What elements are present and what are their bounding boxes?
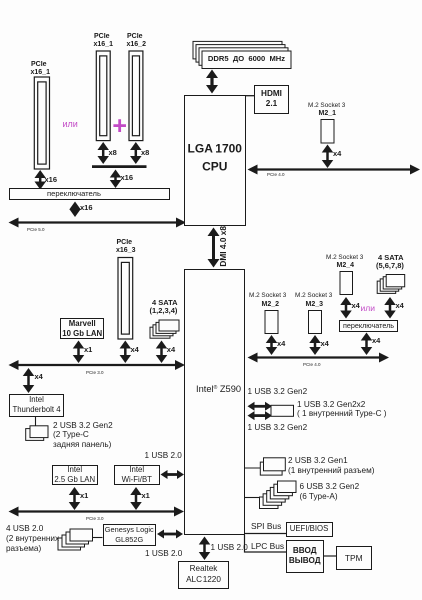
PCIe slot x16_1 (middle): [96, 51, 110, 141]
PCIe 4.0 bus (right): [248, 353, 390, 363]
label DMI 4.0 x8 (rotated): [219, 226, 260, 268]
Intel 2.5Gb LAN box: [52, 465, 98, 486]
label PCIe 5.0: [27, 227, 45, 233]
SPI bus wire: [245, 533, 286, 535]
label x4 (Thunderbolt): [35, 373, 43, 382]
label 2 USB 3.2 Gen2 TypeC rear panel: [53, 421, 113, 430]
label LPC Bus: [251, 542, 284, 551]
arrow x16 switch to PCIe5.0 bus: [69, 202, 81, 218]
wire IO to TPM: [324, 555, 336, 557]
arrow x16 bar to switch: [110, 170, 122, 189]
label M.2 Socket 3 (M2_3): [295, 292, 332, 299]
PCIe 5.0 bus arrow: [9, 218, 187, 228]
Intel WiFi/BT box: [114, 465, 160, 486]
arrow x4 M2_3 to PCIe4 bus: [309, 335, 321, 355]
label PCIe x16_2: [127, 33, 143, 41]
arrow x1 LAN to PCIe3 bus: [69, 487, 81, 510]
label PCIe 4.0 (right): [303, 362, 321, 368]
arrow x16 left-slot to switch: [34, 170, 46, 190]
arrow x1 WiFi to PCIe3 bus: [130, 487, 142, 510]
TPM box: [336, 546, 372, 570]
USB Gen2x2 port rect: [271, 405, 294, 416]
CPU box LGA1700: [184, 95, 246, 226]
wire Thunderbolt to TypeC stack: [35, 417, 37, 428]
label x4 (SATA 5-8): [396, 302, 404, 311]
label x4 (M2_2): [277, 340, 285, 349]
label 6 USB 3.2 Gen2: [300, 482, 360, 491]
label 2 USB 3.2 Gen1: [288, 456, 348, 465]
2 USB Gen1 stack: [260, 458, 285, 475]
arrow x4 M2_1 to PCIe4 bus: [322, 145, 334, 169]
PCIe 4.0 bus (top right): [248, 165, 421, 175]
Intel Thunderbolt 4 box: [9, 394, 64, 418]
label 4 USB 2.0 (2 internal): [6, 524, 43, 533]
UEFI/BIOS box: [286, 522, 333, 537]
label PCIe x16_1 (middle slot): [94, 33, 110, 41]
Marvell 10Gb LAN box: [60, 318, 104, 338]
DDR5 memory stack: [193, 41, 291, 68]
label x16 (left slot arrow): [45, 176, 58, 185]
label 6 TypeA: [300, 492, 338, 501]
switch box (top) pereklyuchatel: [9, 188, 170, 200]
M.2 slot M2_1: [321, 120, 334, 144]
label PCIe x16_3: [117, 239, 133, 247]
VVOD/VYVOD (IO) box: [286, 540, 325, 573]
label M2_4: [337, 262, 355, 270]
label SPI Bus: [251, 522, 281, 531]
SATA stack 5-8: [377, 275, 405, 294]
label 1 USB 3.2 Gen2 (lower): [248, 423, 308, 432]
arrow x4 x16_3 to PCIe3 bus: [120, 341, 132, 364]
label PCIe x16_1 (left slot): [31, 61, 47, 69]
M.2 slot M2_4: [340, 272, 353, 295]
chipset box Intel Z590: [184, 269, 245, 536]
label 4 SATA (5,6,7,8): [378, 254, 404, 263]
switch box (right): [339, 320, 398, 332]
arrow x4 SATA5678 to switch: [384, 297, 396, 319]
label PCIe 3.0 (middle): [86, 370, 104, 376]
label x1 (LAN): [80, 492, 88, 501]
label x16 (bar arrow): [121, 174, 134, 183]
bus bar joining x8 arrows: [92, 165, 147, 168]
Realtek ALC1220 box: [178, 561, 229, 589]
4 USB2 stack: [58, 529, 93, 550]
arrow x1 Marvell to PCIe3 bus: [73, 341, 85, 364]
label PCIe 3.0 (bottom): [86, 516, 104, 522]
label pereklyuchatel (top switch): [47, 190, 101, 199]
label x1 (WiFi): [142, 492, 150, 501]
LPC bus wire: [245, 535, 287, 552]
PCIe slot x16_3: [118, 258, 133, 340]
USB gen2x2 arrow row1: [248, 402, 273, 411]
arrow x4 PCIe3 bus to Thunderbolt: [23, 368, 35, 393]
label x8 (first): [109, 149, 117, 158]
USB2.0 arrow wifi to chipset: [161, 470, 185, 479]
label x1 (Marvell): [84, 346, 92, 355]
label x4 (right switch): [372, 337, 380, 346]
label 1 USB 3.2 Gen2 (upper): [248, 387, 308, 396]
label M.2 Socket 3 (M2_4): [326, 254, 363, 261]
arrow x4 right-switch to PCIe4 bus: [361, 333, 373, 356]
label M2_1: [319, 110, 337, 118]
M.2 slot M2_3: [309, 311, 322, 334]
arrow x8 from slot x16_2: [130, 142, 142, 164]
label 1 USB 2.0 (Genesys): [145, 549, 182, 558]
magenta label ili (or) right: [361, 304, 375, 314]
magenta label ili (or) left: [63, 119, 78, 129]
M.2 slot M2_2: [265, 311, 278, 334]
label 1 USB 3.2 Gen2x2: [297, 400, 365, 409]
label 4 SATA (1,2,3,4): [152, 299, 178, 308]
label 1 USB 2.0 (Realtek): [211, 543, 248, 552]
label M2_2: [262, 301, 280, 309]
PCIe slot x16_2: [129, 51, 143, 141]
wire chipset to 2xUSB Gen1 stack: [245, 467, 262, 469]
SATA stack 1-4: [150, 320, 179, 338]
PCIe 3.0 bus (middle): [9, 360, 186, 370]
label x8 (second): [141, 149, 149, 158]
USB gen2x2 arrow row2: [248, 411, 273, 420]
HDMI 2.1 box: [254, 85, 289, 115]
label M2_3: [306, 301, 324, 309]
label M.2 Socket 3 (M2_1): [308, 102, 345, 109]
label x4 (M2_4): [352, 302, 360, 311]
arrow x4 SATA1234 to PCIe3 bus: [156, 341, 168, 364]
label x4 (M2_1): [333, 150, 341, 159]
label x4 (x16_3): [131, 346, 139, 355]
arrow DDR5 to CPU: [206, 70, 218, 94]
wire chipset to 6xUSB stack: [245, 497, 261, 499]
DMI arrow CPU to chipset: [208, 228, 220, 268]
label 1 USB 2.0 (wifi): [145, 451, 182, 460]
wire stack to Genesys: [93, 537, 103, 539]
label 1 vnutrenniy razyem: [288, 466, 374, 475]
arrow x4 M2_2 to PCIe4 bus: [266, 335, 278, 355]
label 1 vnutrenniy TypeC: [297, 409, 387, 418]
arrow x4 M2_4 to switch: [340, 297, 352, 319]
label x4 (M2_3): [321, 340, 329, 349]
2 TypeC ports stack: [26, 426, 48, 441]
label M.2 Socket 3 (M2_2): [249, 292, 286, 299]
magenta plus sign: [112, 113, 127, 139]
USB2.0 arrow Genesys to chipset: [157, 530, 183, 539]
arrow x8 from slot x16_1: [97, 142, 109, 164]
arrow 1 USB 2.0 chipset to Realtek: [199, 537, 211, 561]
PCIe 3.0 bus (bottom): [9, 507, 185, 517]
label x4 (SATA 1-4): [167, 346, 175, 355]
6 USB Gen2 stack: [260, 481, 297, 509]
Genesys Logic GL852G box: [103, 524, 157, 547]
PCIe slot x16_1 (left): [34, 77, 49, 169]
label PCIe 4.0 (top): [267, 172, 285, 178]
label Intel Z590: [196, 383, 241, 394]
wire CPU to HDMI: [245, 95, 255, 97]
label DDR5 DO 6000 MHz: [202, 51, 291, 69]
label x16 (switch arrow): [80, 204, 93, 213]
